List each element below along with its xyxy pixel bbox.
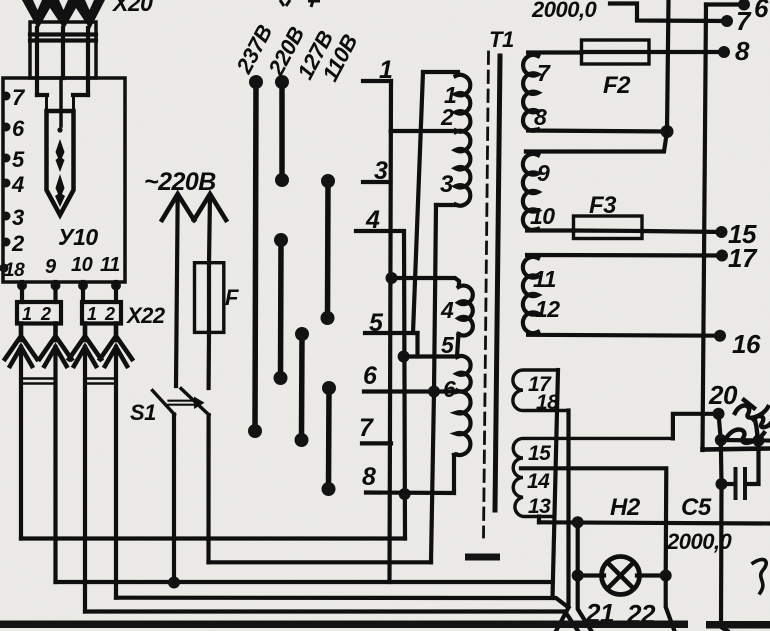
wire lamp left down to terminal 21 [578, 576, 592, 631]
wire fuse F3 to terminal 15 [642, 231, 722, 232]
wire pin 17 riser to bottom rail [553, 370, 559, 598]
wire junction up to top edge [667, 0, 669, 132]
handwritten scribble bottom right [753, 559, 766, 593]
mains plug arrow left [162, 194, 194, 220]
wire X22 contact4 down [114, 347, 118, 598]
transformer T1 secondary winding 17-18 [513, 370, 569, 411]
X22 plug arrow contact 4 [100, 324, 132, 367]
svg-text:16: 16 [732, 329, 761, 359]
wire tap 5 drop to link 4-5 [415, 333, 419, 357]
junction lamp right node [660, 570, 672, 582]
svg-text:6: 6 [754, 0, 769, 23]
svg-text:3: 3 [12, 205, 24, 230]
wire fuse F2 to terminal 8 [649, 50, 724, 54]
pin 10 terminal bullet [78, 281, 88, 291]
svg-text:У10: У10 [58, 224, 98, 250]
X20 pin 2 shaft [61, 28, 65, 78]
transformer T1 secondary winding 11-12 [523, 257, 538, 333]
connector X20 housing [30, 22, 96, 78]
selector jumper bar 220V upper [275, 75, 289, 187]
svg-text:F: F [225, 285, 239, 310]
switch S1 linkage arrow [169, 397, 205, 410]
wire bottom rail to tap4 column [21, 536, 405, 540]
svg-text:2000,0: 2000,0 [531, 0, 598, 22]
connector X22 socket 1 [17, 302, 61, 324]
svg-text:7: 7 [359, 414, 374, 442]
junction on pin13 wire [572, 516, 584, 528]
wire bottom rail from S1 right contact [209, 560, 432, 564]
transformer T1 secondary winding 9-10 [523, 154, 538, 230]
pin 4 of U10 [2, 179, 11, 188]
wire S1 right pole down to rail [206, 415, 210, 562]
wire X22 contact3 down [83, 347, 87, 612]
wire tap 7 stub [362, 441, 391, 445]
wire S1 left pole down to rail [172, 415, 176, 583]
svg-text:14: 14 [527, 470, 550, 493]
svg-text:2: 2 [440, 104, 454, 130]
X22 connector body tick lines right pair [85, 379, 116, 384]
transformer T1 primary winding section 3 [456, 131, 471, 206]
svg-text:2: 2 [40, 304, 51, 324]
switch S1 pole 2 arm [181, 389, 209, 416]
transformer T1 secondary winding 7-8 [523, 55, 538, 131]
svg-text:F3: F3 [589, 192, 617, 219]
junction node windings 8-9 [661, 125, 674, 138]
wire node row to right edge [721, 438, 770, 443]
wire tap 1 stub [363, 79, 391, 83]
svg-text:3: 3 [440, 171, 454, 198]
wire bottom rail lowest [85, 612, 578, 631]
border bottom bar right part [706, 621, 770, 629]
svg-text:S1: S1 [130, 400, 156, 425]
wire tap 14 to lamp right lead [521, 468, 666, 575]
svg-text:10: 10 [530, 203, 555, 229]
lamp H2 [602, 557, 640, 595]
cropped text fragment top middle [280, 0, 290, 6]
wire section 3 bottom lead [436, 203, 456, 207]
wire winding top to tap 5 [413, 72, 423, 333]
pin 3 of U10 [2, 212, 11, 221]
svg-text:2: 2 [104, 304, 115, 324]
arrester electrode mark lower [55, 174, 65, 207]
svg-text:6: 6 [363, 362, 378, 390]
wire junction to winding 9 top [526, 132, 667, 156]
svg-text:9: 9 [45, 256, 57, 278]
svg-text:1: 1 [22, 304, 32, 324]
wire section 4 to link 4-5 [457, 334, 459, 357]
svg-text:5: 5 [441, 332, 455, 358]
wire pin 18 down to bottom rail [556, 411, 569, 631]
wire winding 8 bottom to junction [526, 130, 667, 132]
X20 pin 1 shaft [35, 28, 39, 95]
electrode dot [57, 127, 62, 132]
transformer T1 core screen dashed [484, 52, 489, 537]
svg-text:С5: С5 [681, 494, 712, 521]
neck of surge-arrester body [37, 95, 88, 113]
wire terminal 20 column down [719, 414, 728, 631]
wire capacitor branch to terminal 7 [610, 4, 727, 22]
transformer T1 primary winding section 5 [457, 356, 471, 392]
svg-text:15: 15 [528, 442, 551, 465]
svg-text:5: 5 [12, 147, 25, 172]
wire lamp right lead [637, 573, 666, 577]
X20 pin 3 shaft [86, 28, 90, 95]
wire winding 10 to fuse F3 [525, 229, 574, 231]
fuse F [195, 263, 224, 333]
junction C5 left plate node [716, 478, 728, 490]
junction tap4 column at link 4-5 [398, 351, 410, 363]
svg-text:Н2: Н2 [610, 494, 641, 521]
svg-text:8: 8 [735, 36, 750, 66]
wire pin18 stub [20, 282, 24, 302]
pin 7 of U10 [2, 92, 11, 101]
selector jumper bar 127V upper [321, 174, 336, 325]
terminal 7 bullet [721, 15, 733, 27]
pin 6 of U10 [2, 123, 11, 132]
svg-text:20: 20 [708, 380, 738, 410]
wire rail corner to right edge [703, 449, 770, 450]
svg-text:8: 8 [362, 463, 376, 491]
border bottom bar left part [0, 621, 688, 629]
wire fuse F to S1 right contact [207, 332, 212, 388]
wire tap 8 to winding section 6 [366, 455, 454, 493]
svg-text:Х20: Х20 [111, 0, 153, 16]
pin 9 terminal bullet [51, 281, 61, 291]
pin 5 of U10 [2, 154, 11, 163]
capacitor C5 [722, 445, 759, 500]
terminal 16 bullet [714, 330, 726, 342]
unit box U10 outline [3, 78, 125, 282]
wire lamp left lead [578, 573, 604, 577]
selector jumper bar 110V lower [322, 381, 337, 496]
junction lamp left node [572, 570, 584, 582]
selector jumper bar 237V [248, 75, 263, 438]
svg-text:9: 9 [537, 160, 550, 186]
wire X22 contact2 down [53, 347, 57, 582]
svg-text:Т1: Т1 [489, 27, 514, 52]
terminal 15 bullet [716, 226, 728, 238]
wire bottom rail to pin18 line [116, 598, 569, 608]
terminal 20 bullet [713, 408, 725, 420]
junction tap4 column at tap 8 wire [399, 488, 411, 500]
wire section3 bottom to S1 rail [431, 205, 436, 562]
wire tap 4 to bottom rail [356, 231, 405, 539]
pin 11 terminal bullet [111, 281, 121, 291]
fuse F3 [574, 216, 643, 239]
node bullet left on wire 440 [715, 434, 727, 446]
transformer T1 primary winding section 1-2 [456, 75, 471, 132]
connector X20 plug pins zigzag [22, 0, 105, 31]
junction node on column at link 3-4 [386, 272, 398, 284]
wire tap 6 / link 5-6 [364, 389, 456, 393]
ground chassis bar [465, 554, 500, 561]
selector jumper bar center low [295, 327, 310, 447]
wire winding 11 top to terminal 17 [525, 255, 722, 258]
svg-text:Х22: Х22 [125, 303, 166, 328]
wire bottom rail to winding riser [56, 580, 553, 584]
wire X22 contact1 down [19, 347, 23, 539]
mains plug arrow right [194, 194, 226, 220]
svg-text:11: 11 [100, 254, 120, 276]
wire winding 7 top to fuse F2 [526, 53, 582, 57]
svg-text:4: 4 [440, 297, 454, 323]
fuse F2 [582, 40, 650, 64]
svg-text:11: 11 [533, 266, 556, 292]
svg-text:6: 6 [443, 376, 456, 402]
wire lamp right down to terminal 22 [666, 576, 675, 631]
wire terminal 6 stub [706, 2, 744, 6]
wire center pin into blade [59, 78, 63, 126]
wire pin10 stub [81, 282, 85, 302]
wire lamp left to pin13 wire [576, 522, 580, 575]
junction S1 wire on rail [168, 577, 180, 589]
svg-text:F2: F2 [603, 72, 631, 99]
handwritten scribble near terminal 20 [727, 400, 770, 444]
svg-text:4: 4 [11, 172, 24, 197]
wire pin 13 long horizontal [539, 522, 770, 523]
wire link 3-4 [392, 278, 460, 285]
terminal 6 bullet [738, 0, 750, 11]
X22 plug arrow contact 1 [5, 324, 37, 367]
junction tap 6 node [428, 386, 440, 398]
svg-text:6: 6 [12, 116, 25, 141]
wire tap 5 stub [365, 331, 418, 335]
transformer T1 primary winding section 6 [456, 391, 471, 455]
wire section 6 bottom stub [454, 452, 456, 457]
pin 18 of U10 [0, 264, 9, 273]
surge arrester blade body [47, 111, 74, 215]
terminal 17 bullet [716, 250, 728, 262]
transformer T1 core bar [495, 56, 500, 510]
wire pin11 stub [114, 282, 118, 302]
svg-text:17: 17 [728, 243, 758, 273]
wire plug right to fuse F [209, 195, 210, 263]
wire pin9 stub [53, 282, 57, 302]
transformer T1 primary winding section 4 [459, 286, 473, 336]
svg-text:1: 1 [87, 304, 97, 324]
svg-text:2000,0: 2000,0 [666, 529, 733, 554]
transformer T1 secondary winding 15-14-13 [513, 438, 673, 516]
wire link 4-5 [404, 354, 457, 358]
wire winding 12 bottom to terminal 16 [526, 332, 720, 336]
wire plug left to S1 contact [176, 195, 178, 386]
pin 18 terminal bullet [17, 281, 27, 291]
svg-text:2: 2 [11, 231, 25, 256]
wire link to winding junction 2-3 [391, 129, 458, 133]
arrester electrode mark upper [56, 139, 65, 172]
selector jumper bar 220V lower [274, 233, 289, 385]
X22 connector body tick lines left pair [21, 379, 56, 384]
X22 plug arrow contact 2 [40, 324, 72, 367]
svg-text:18: 18 [4, 260, 25, 281]
pin 2 of U10 [2, 238, 11, 247]
wire primary top lead [423, 70, 458, 74]
wire selector column taps 1-3-7 [390, 81, 392, 582]
wire pin 13 drop [537, 517, 541, 523]
svg-text:8: 8 [534, 104, 547, 130]
wire pin 15 to terminal 20 [673, 414, 719, 439]
terminal 8 bullet [718, 46, 730, 58]
X22 plug arrow contact 3 [69, 324, 101, 367]
switch S1 pole 1 arm [153, 391, 175, 415]
svg-text:~220В: ~220В [144, 168, 216, 196]
svg-text:10: 10 [71, 254, 93, 276]
svg-text:7: 7 [537, 60, 551, 86]
connector X22 socket 2 [82, 302, 121, 324]
svg-text:12: 12 [535, 296, 560, 322]
node bullet right on wire 440 [753, 435, 765, 447]
wire tap 3 stub [363, 180, 391, 184]
wire right vertical rail [703, 5, 707, 451]
